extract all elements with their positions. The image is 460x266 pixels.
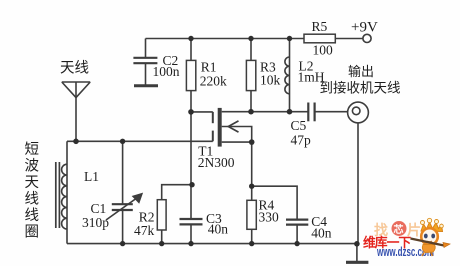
wire R2 bottom	[161, 230, 163, 244]
transistor T1 gate-1 electrode	[212, 112, 214, 123]
svg-text:100n: 100n	[153, 64, 180, 79]
node dot drain L2	[287, 109, 293, 115]
svg-text:圈: 圈	[25, 225, 40, 241]
wire R4 top	[251, 186, 253, 200]
transistor T1 substrate arrow line	[222, 127, 252, 143]
svg-text:10k: 10k	[260, 73, 281, 88]
node dot R2 tap	[189, 182, 194, 187]
node dot source	[249, 139, 255, 145]
wire top supply rail	[146, 38, 363, 40]
wire R1 top	[190, 39, 192, 61]
wire tank node horizontal (antenna / C1 to gate-2)	[67, 140, 213, 142]
svg-text:波: 波	[25, 158, 40, 175]
wire R4 bottom	[251, 229, 253, 243]
label T1 type	[198, 143, 235, 170]
output coax connector	[348, 102, 369, 123]
svg-text:220k: 220k	[200, 74, 227, 89]
label R1 value	[200, 60, 227, 89]
label R2 value	[134, 209, 155, 238]
resistor R4	[247, 200, 256, 229]
svg-text:天: 天	[25, 175, 40, 191]
capacitor C1 (variable)	[106, 141, 142, 243]
svg-text:短: 短	[25, 141, 40, 158]
node dot rail L2	[287, 36, 292, 41]
label C4 value	[311, 214, 332, 240]
svg-text:47p: 47p	[291, 132, 312, 147]
wire source down to R4 node	[251, 142, 253, 186]
capacitor C3	[180, 219, 203, 244]
core bars of L1	[56, 162, 60, 228]
svg-text:100: 100	[313, 43, 334, 58]
node dot rail C4	[294, 241, 299, 246]
svg-text:输出: 输出	[348, 64, 374, 79]
svg-text:L1: L1	[84, 169, 99, 184]
wire connector down to ground	[357, 123, 359, 244]
node dot rail R1	[188, 36, 193, 41]
label C5 value	[291, 118, 312, 147]
label R3 value	[260, 60, 281, 88]
svg-text:40n: 40n	[311, 225, 332, 240]
node dot rail R2	[159, 241, 164, 246]
inductor L2	[285, 39, 290, 112]
label R5 value	[312, 19, 334, 58]
wire drain line to C5	[222, 111, 309, 113]
transistor T1 substrate arrowhead	[228, 121, 238, 132]
capacitor C4	[286, 220, 308, 244]
resistor R2	[157, 200, 166, 230]
svg-text:+9V: +9V	[351, 20, 378, 36]
wire R3 top	[250, 39, 252, 61]
watermark faint slogan	[374, 221, 421, 239]
node dot rail C1	[120, 241, 125, 246]
ground symbol	[346, 244, 368, 262]
node dot antenna tank	[73, 139, 79, 145]
svg-text:R1: R1	[201, 60, 217, 75]
wire source line	[222, 141, 252, 143]
svg-text:310p: 310p	[82, 215, 109, 230]
label C2 value	[153, 53, 180, 79]
label C3 value	[206, 211, 228, 237]
svg-text:芯: 芯	[394, 223, 404, 236]
wire G1 tap horizontal	[191, 111, 213, 113]
label L2 value	[298, 58, 325, 84]
node dot R4 top	[249, 184, 254, 189]
svg-text:C1: C1	[91, 201, 107, 216]
svg-text:线: 线	[25, 207, 40, 224]
label C1 value	[82, 201, 109, 230]
svg-text:40n: 40n	[208, 222, 229, 237]
wire R1 bottom to gate node down to C3	[190, 91, 192, 219]
svg-text:C5: C5	[291, 118, 307, 133]
resistor R3	[246, 60, 255, 90]
svg-text:2N300: 2N300	[198, 155, 235, 170]
wire C4 branch	[252, 186, 297, 219]
watermark mascot	[411, 218, 451, 256]
label 短波天线线圈 vertical	[25, 141, 40, 241]
svg-text:R5: R5	[312, 19, 328, 34]
ground bar below C2	[134, 84, 158, 87]
resistor R5	[304, 34, 335, 43]
node dot rail C3	[188, 241, 193, 246]
node dot gate G1	[188, 109, 194, 115]
resistor R1	[186, 60, 195, 90]
node dot rail R3	[248, 36, 253, 41]
node dot ground	[354, 241, 360, 247]
wire C2 branch down from rail	[145, 39, 147, 58]
node dot drain R3	[248, 109, 254, 115]
inductor L1	[62, 141, 67, 243]
antenna symbol	[62, 82, 90, 141]
node dot rail R4	[249, 241, 254, 246]
label R4 value	[259, 197, 280, 224]
svg-text:330: 330	[259, 209, 280, 224]
wire R3 bottom	[250, 91, 252, 112]
capacitor C5	[308, 103, 347, 122]
svg-text:天线: 天线	[60, 60, 89, 77]
wire bottom ground rail	[67, 243, 357, 245]
transistor T1 channel bar	[218, 108, 222, 147]
node dot C1 top	[120, 139, 125, 144]
capacitor C2	[133, 58, 157, 85]
svg-text:47k: 47k	[134, 223, 155, 238]
transistor T1 gate-2 electrode	[212, 131, 214, 142]
wire R2 top L-shape to gate node	[162, 185, 192, 200]
svg-text:到接收机天线: 到接收机天线	[320, 80, 401, 96]
terminal +9V circle	[363, 34, 371, 42]
svg-text:线: 线	[25, 191, 40, 208]
